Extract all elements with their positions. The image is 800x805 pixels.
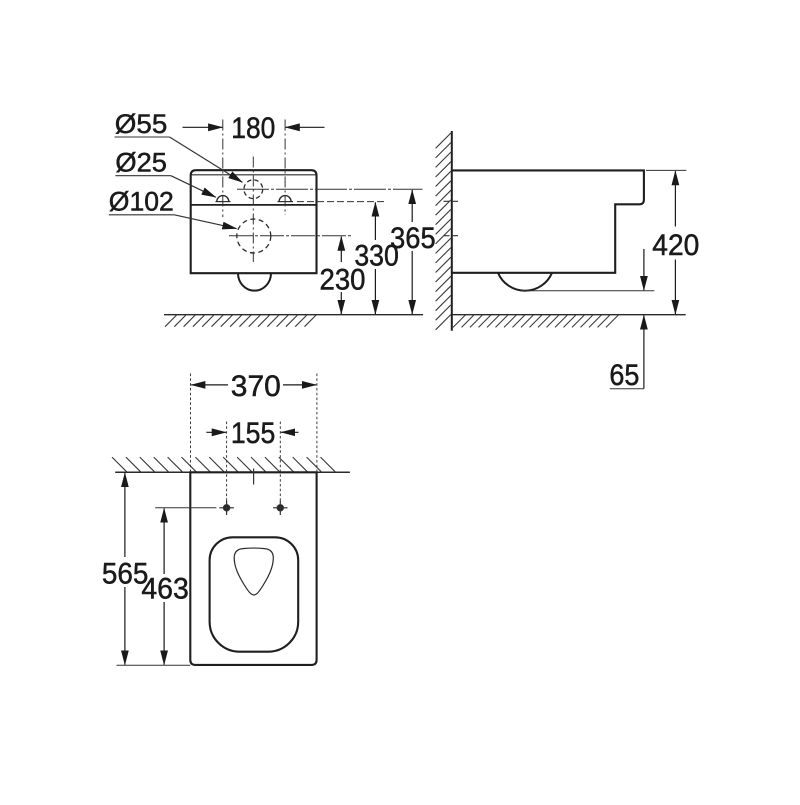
plan view: right seat fixing hole [273,501,287,515]
rear view: trap outlet bump below body [238,273,271,290]
rear view: right fixing hole (dia 25) [279,196,291,202]
dimension 370: left extension line [190,374,192,472]
plan view: seat bowl outer outline [210,537,299,651]
dimension 330: lower arrow segment [374,269,376,314]
label dia 102 underline [109,214,175,216]
dimension 420: upper arrow segment [674,171,676,226]
dimension 463: upper arrow segment [163,509,165,575]
rear view: fixing holes level line segments [216,201,231,203]
svg-text:420: 420 [652,229,699,262]
dimension 155: left arrow [206,431,226,433]
dimension 330: upper arrow segment [374,202,376,240]
plan view: body outline rectangle [190,472,316,665]
rear view: floor hatching [165,315,316,327]
dimension 180: right arrow [286,126,325,128]
svg-text:370: 370 [231,370,281,403]
rear view: cistern/bowl divider line [191,204,317,206]
rear view: ceramic body outline [191,170,317,273]
dimension 155: right arrow [281,431,299,433]
dimension 463: lower arrow segment [163,602,165,665]
side view: drain pipe tick through wall [444,235,460,237]
side view: supply pipe tick through wall [444,200,460,202]
plan view: bottom extension line [117,664,191,666]
dimension 370: right extension line [316,374,318,472]
label dia 55 underline [115,136,170,138]
svg-text:155: 155 [231,417,276,450]
label dia 102 leader arrow to drain hole [174,215,236,229]
dimension 565: lower arrow segment [124,587,126,665]
dimension 365: lower arrow segment [411,251,413,314]
dimension 230: upper arrow segment [340,237,342,262]
rear view: left fixing hole (dia 25) [217,196,229,202]
dimension 230: lower arrow segment [340,292,342,314]
dimension 420: top extension line [646,169,686,171]
dimension 370: right arrow [283,384,316,386]
plan view: centre tick at wall [253,469,255,485]
rear view: flush hole circle (dia 55, dashed) [244,180,263,199]
side view: floor line [452,314,686,316]
side view: wall hatching [436,133,451,330]
side view: trap outlet arc [498,273,552,291]
svg-text:180: 180 [231,112,275,145]
side view: body profile outline [452,170,644,272]
rear view: horizontal centreline at drain hole, extends to 230 dim [229,235,351,237]
plan view: wall hatching [112,457,336,472]
rear view: dashed line fixing-hole level to 330 dim [297,201,386,203]
svg-text:463: 463 [141,573,189,606]
side view: wall line [451,131,453,331]
dimension 65: lower arrow pointing up to floor [643,315,645,388]
rear view: left fixing-hole centreline (extension for 180 dim) [222,120,224,218]
dimension 370: left arrow [191,384,228,386]
dimension 420: lower arrow segment [674,260,676,315]
side view: floor hatching [453,315,619,328]
dimension 155: right extension line [279,422,281,503]
svg-text:Ø25: Ø25 [115,148,166,178]
dimension 65: upper arrow pointing down to outlet line [643,249,645,290]
dimension 565: upper arrow segment [124,473,126,557]
plan view: wall line [115,471,350,473]
label dia 25 underline [115,175,170,177]
side view: outlet bottom reference line (65 dim) [521,290,654,292]
dimension 365: upper arrow segment [411,190,413,222]
label dia 25 leader arrow to fixing hole [171,176,216,198]
rear view: horizontal centreline at flush hole, extends to 365 dim [237,188,423,190]
svg-text:65: 65 [609,359,639,392]
dimension 180: left arrow [183,126,223,128]
dimension 65: text underline [610,388,644,390]
plan view: fixing hole level reference line [155,507,216,509]
label dia 55 leader arrow to flush hole [170,137,243,182]
rear view: drain hole circle (dia 102, dashed) [237,219,271,253]
rear view: floor line [164,314,423,316]
plan view: left seat fixing hole [219,501,233,515]
rear view: right fixing-hole centreline (extension for 180 dim) [284,120,286,216]
dimension 155: left extension line [226,422,228,503]
plan view: inner water surface outline [234,548,273,595]
rear view: vertical centreline through flush/drain holes [252,157,254,263]
svg-text:Ø55: Ø55 [115,109,168,139]
svg-text:Ø102: Ø102 [109,187,174,217]
svg-text:230: 230 [320,263,366,296]
rear view: rim inner line [191,174,317,176]
